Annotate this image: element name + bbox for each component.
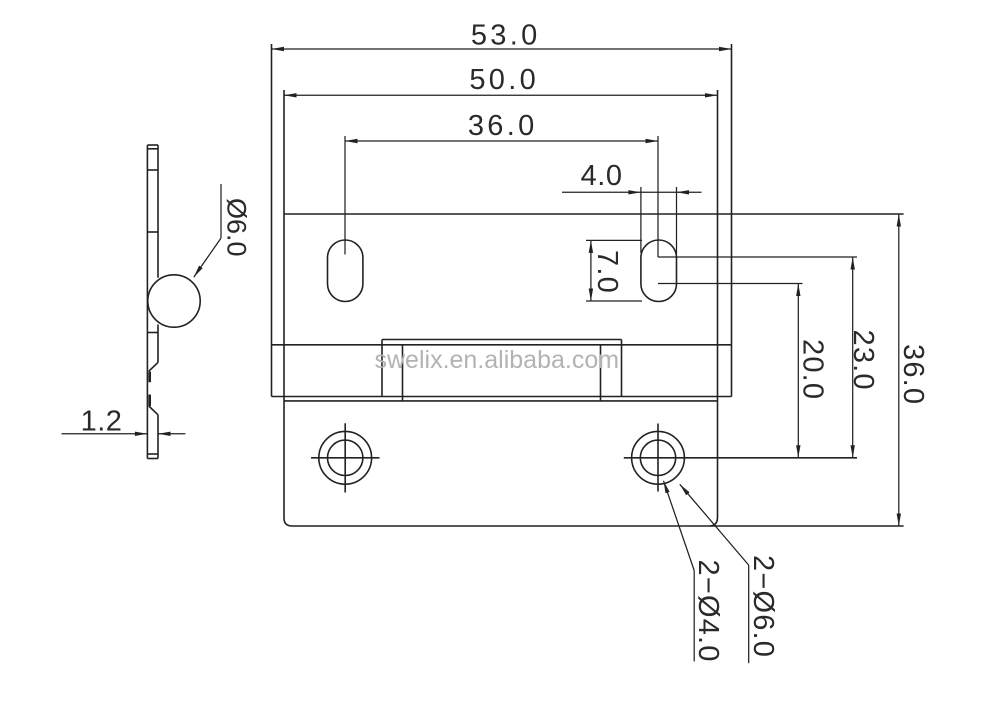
dimension 4.0 right tail line	[677, 191, 702, 193]
side view plate bottom cap line	[147, 453, 158, 455]
dimension 1.2 line right	[158, 433, 185, 435]
dimension 23.0 bottom arrowhead	[851, 445, 855, 458]
dimension 4.0 left tail line	[562, 191, 641, 193]
leader 2-D6.0 landing line	[748, 565, 750, 663]
barrel left edge plus 53.0 extension line	[271, 44, 273, 397]
dimension 36.0 top line	[345, 140, 658, 142]
dimension 23.0 top arrowhead	[851, 257, 855, 270]
knuckle top edge	[382, 339, 622, 341]
leader 2-D4.0 angled line	[664, 481, 695, 571]
dimension 4.0 extension line left	[640, 187, 642, 253]
right hole inner circle	[640, 440, 675, 475]
dimension 50.0 left arrowhead	[284, 93, 297, 97]
left hole vertical centerline	[344, 423, 346, 492]
dimension 4.0 left arrowhead	[628, 190, 641, 194]
dimension 1.2 left arrowhead	[135, 432, 148, 436]
side view plate top edge	[147, 144, 158, 146]
right hole horizontal centerline plus extension	[624, 457, 857, 459]
side view plate bottom edge	[147, 458, 158, 460]
svg-text:7.0: 7.0	[591, 250, 623, 294]
svg-text:23.0: 23.0	[847, 330, 879, 391]
leader D6.0 arrowhead	[194, 266, 203, 278]
dimension 36.0 right line	[898, 214, 900, 526]
side view plate right edge upper	[157, 145, 159, 278]
left hole horizontal centerline	[311, 457, 380, 459]
right slot	[641, 240, 677, 302]
side view plate left edge	[146, 145, 148, 459]
svg-text:36.0: 36.0	[468, 110, 538, 142]
dimension 23.0 line	[852, 257, 854, 458]
right slot centerline	[657, 136, 659, 257]
bottom leaf bottom edge plus 36.0 extension	[292, 525, 904, 527]
dimension 20.0 top arrowhead	[796, 284, 800, 297]
dimension 1.2 line left	[62, 433, 148, 435]
dimension 4.0 middle segment	[641, 191, 677, 193]
left leaf edge plus 50.0 extension line	[284, 90, 292, 526]
leader 2-D4.0 landing line	[693, 571, 695, 662]
bottom leaf top edge	[284, 400, 718, 402]
dimension 36.0 right bottom arrowhead	[897, 514, 901, 527]
right hole vertical centerline	[657, 424, 659, 492]
dimension 53.0 right arrowhead	[719, 47, 732, 51]
dimension 20.0 line	[797, 284, 799, 458]
side view tick 1	[147, 169, 158, 171]
dimension 36.0 right top arrowhead	[897, 214, 901, 227]
dimension 36.0 top left arrowhead	[345, 139, 358, 143]
side view break diagonal upper	[149, 362, 158, 371]
svg-text:2−Ø4.0: 2−Ø4.0	[692, 560, 724, 663]
svg-text:36.0: 36.0	[897, 344, 929, 405]
side view plate top cap line	[147, 148, 158, 150]
svg-text:Ø6.0: Ø6.0	[222, 198, 252, 257]
dimension 36.0 top right arrowhead	[646, 139, 659, 143]
dimension 50.0 line	[284, 94, 718, 96]
barrel right edge plus 53.0 extension line	[731, 44, 733, 397]
leader D6.0 angled line	[194, 238, 221, 277]
knuckle inner left edge	[402, 345, 404, 401]
knuckle outer right edge	[621, 340, 623, 397]
dimension 20.0 extension line	[658, 283, 803, 285]
side view break inner segment lower	[148, 395, 151, 407]
side view tick 3	[147, 332, 158, 334]
left hole outer circle	[319, 431, 372, 484]
leader 2-D6.0 arrowhead	[680, 484, 690, 495]
dimension 4.0 right arrowhead	[677, 190, 690, 194]
right leaf edge plus 50.0 extension line	[710, 90, 718, 526]
leader 2-D4.0 arrowhead	[664, 481, 670, 494]
knuckle inner right edge	[600, 345, 602, 401]
svg-text:2−Ø6.0: 2−Ø6.0	[747, 555, 779, 658]
knuckle outer left edge	[381, 340, 383, 397]
left slot centerline	[344, 136, 346, 255]
dimension 53.0 left arrowhead	[272, 47, 285, 51]
top leaf bottom edge	[272, 344, 732, 346]
svg-text:4.0: 4.0	[581, 160, 623, 192]
side view tick 2	[147, 231, 158, 233]
barrel bottom edge	[272, 396, 732, 398]
side view hole circle	[148, 275, 200, 327]
left slot	[328, 240, 363, 302]
dimension 7.0 line	[590, 240, 592, 301]
side view plate right edge lower	[157, 415, 159, 459]
top leaf top edge plus 36.0 extension	[284, 213, 904, 215]
dimension 7.0 top arrowhead	[589, 240, 593, 253]
svg-text:53.0: 53.0	[471, 19, 541, 51]
dimension 7.0 bottom arrowhead	[589, 289, 593, 302]
svg-text:20.0: 20.0	[797, 339, 829, 400]
right hole outer circle	[632, 431, 685, 484]
svg-text:swelix.en.alibaba.com: swelix.en.alibaba.com	[375, 346, 620, 374]
dimension 7.0 extension line bottom	[586, 300, 642, 302]
leader label D6.0 landing line	[220, 184, 222, 238]
dimension 1.2 right arrowhead	[158, 432, 171, 436]
left hole inner circle	[328, 440, 363, 475]
side view break diagonal lower	[149, 406, 158, 415]
dimension 23.0 extension line	[658, 256, 857, 258]
dimension 53.0 line	[272, 48, 732, 50]
dimension 4.0 extension line right	[676, 187, 678, 255]
svg-text:1.2: 1.2	[81, 405, 123, 437]
dimension 20.0 bottom arrowhead	[796, 445, 800, 458]
dimension 7.0 extension line top	[586, 239, 642, 241]
leader 2-D6.0 angled line	[680, 484, 749, 565]
side view plate right edge mid	[157, 325, 159, 363]
dimension 50.0 right arrowhead	[705, 93, 718, 97]
side view break inner segment upper	[148, 372, 151, 383]
svg-text:50.0: 50.0	[469, 64, 539, 96]
